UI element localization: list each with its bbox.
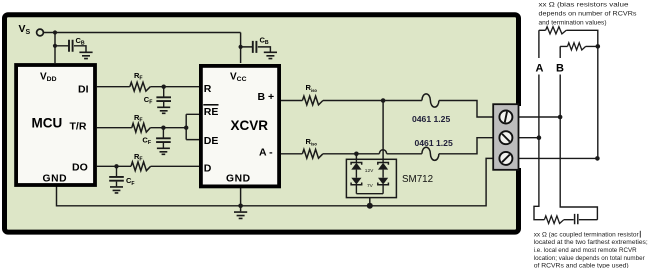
svg-text:GND: GND	[43, 173, 68, 184]
svg-text:12V: 12V	[365, 168, 374, 174]
svg-text:T/R: T/R	[70, 120, 87, 132]
svg-text:and termination values): and termination values)	[539, 19, 607, 26]
svg-text:SM712: SM712	[402, 174, 433, 185]
svg-text:A: A	[536, 62, 544, 74]
svg-text:i.e. local end and most remote: i.e. local end and most remote RCVR	[534, 247, 637, 254]
svg-text:RE: RE	[204, 106, 219, 118]
svg-text:B +: B +	[258, 91, 275, 103]
svg-text:D: D	[204, 162, 212, 174]
svg-text:xx Ω (ac coupled termination r: xx Ω (ac coupled termination resistor	[534, 231, 640, 238]
svg-text:DE: DE	[204, 135, 219, 147]
svg-text:depends on number of RCVRs: depends on number of RCVRs	[539, 10, 638, 17]
svg-text:A -: A -	[259, 146, 273, 158]
svg-text:located at the two farthest ex: located at the two farthest extremeties;	[534, 239, 648, 246]
svg-text:R: R	[204, 83, 212, 95]
svg-text:DO: DO	[72, 162, 88, 174]
svg-text:DI: DI	[78, 83, 89, 95]
svg-text:MCU: MCU	[32, 115, 63, 130]
svg-text:0461 1.25: 0461 1.25	[412, 114, 450, 124]
svg-text:of RCVRs and cable type used): of RCVRs and cable type used)	[534, 263, 629, 268]
svg-text:7V: 7V	[367, 183, 374, 189]
svg-text:B: B	[556, 62, 564, 74]
svg-text:0461 1.25: 0461 1.25	[415, 138, 453, 148]
svg-text:GND: GND	[226, 173, 251, 184]
svg-text:XCVR: XCVR	[231, 118, 269, 133]
svg-text:xx Ω (bias resistors value: xx Ω (bias resistors value	[539, 1, 629, 8]
svg-text:location; value depends on tot: location; value depends on total number	[534, 255, 646, 262]
